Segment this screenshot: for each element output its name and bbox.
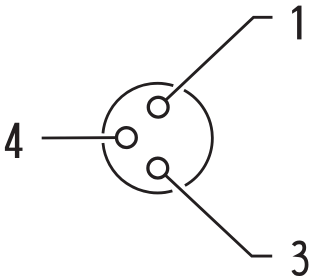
wire leader to pin 3 bbox=[158, 168, 272, 256]
label 3 bbox=[293, 242, 306, 274]
label 1 bbox=[292, 6, 301, 40]
pin 3 contact bbox=[148, 158, 168, 178]
pin 4 contact bbox=[117, 128, 137, 148]
label 4 bbox=[5, 123, 23, 158]
wire leader to pin 4 bbox=[42, 136, 127, 139]
wire leader to pin 1 bbox=[158, 17, 272, 107]
pin 1 contact bbox=[148, 97, 168, 117]
connector body circle (3 arc segments with gaps for leader lines) bbox=[103, 83, 212, 193]
